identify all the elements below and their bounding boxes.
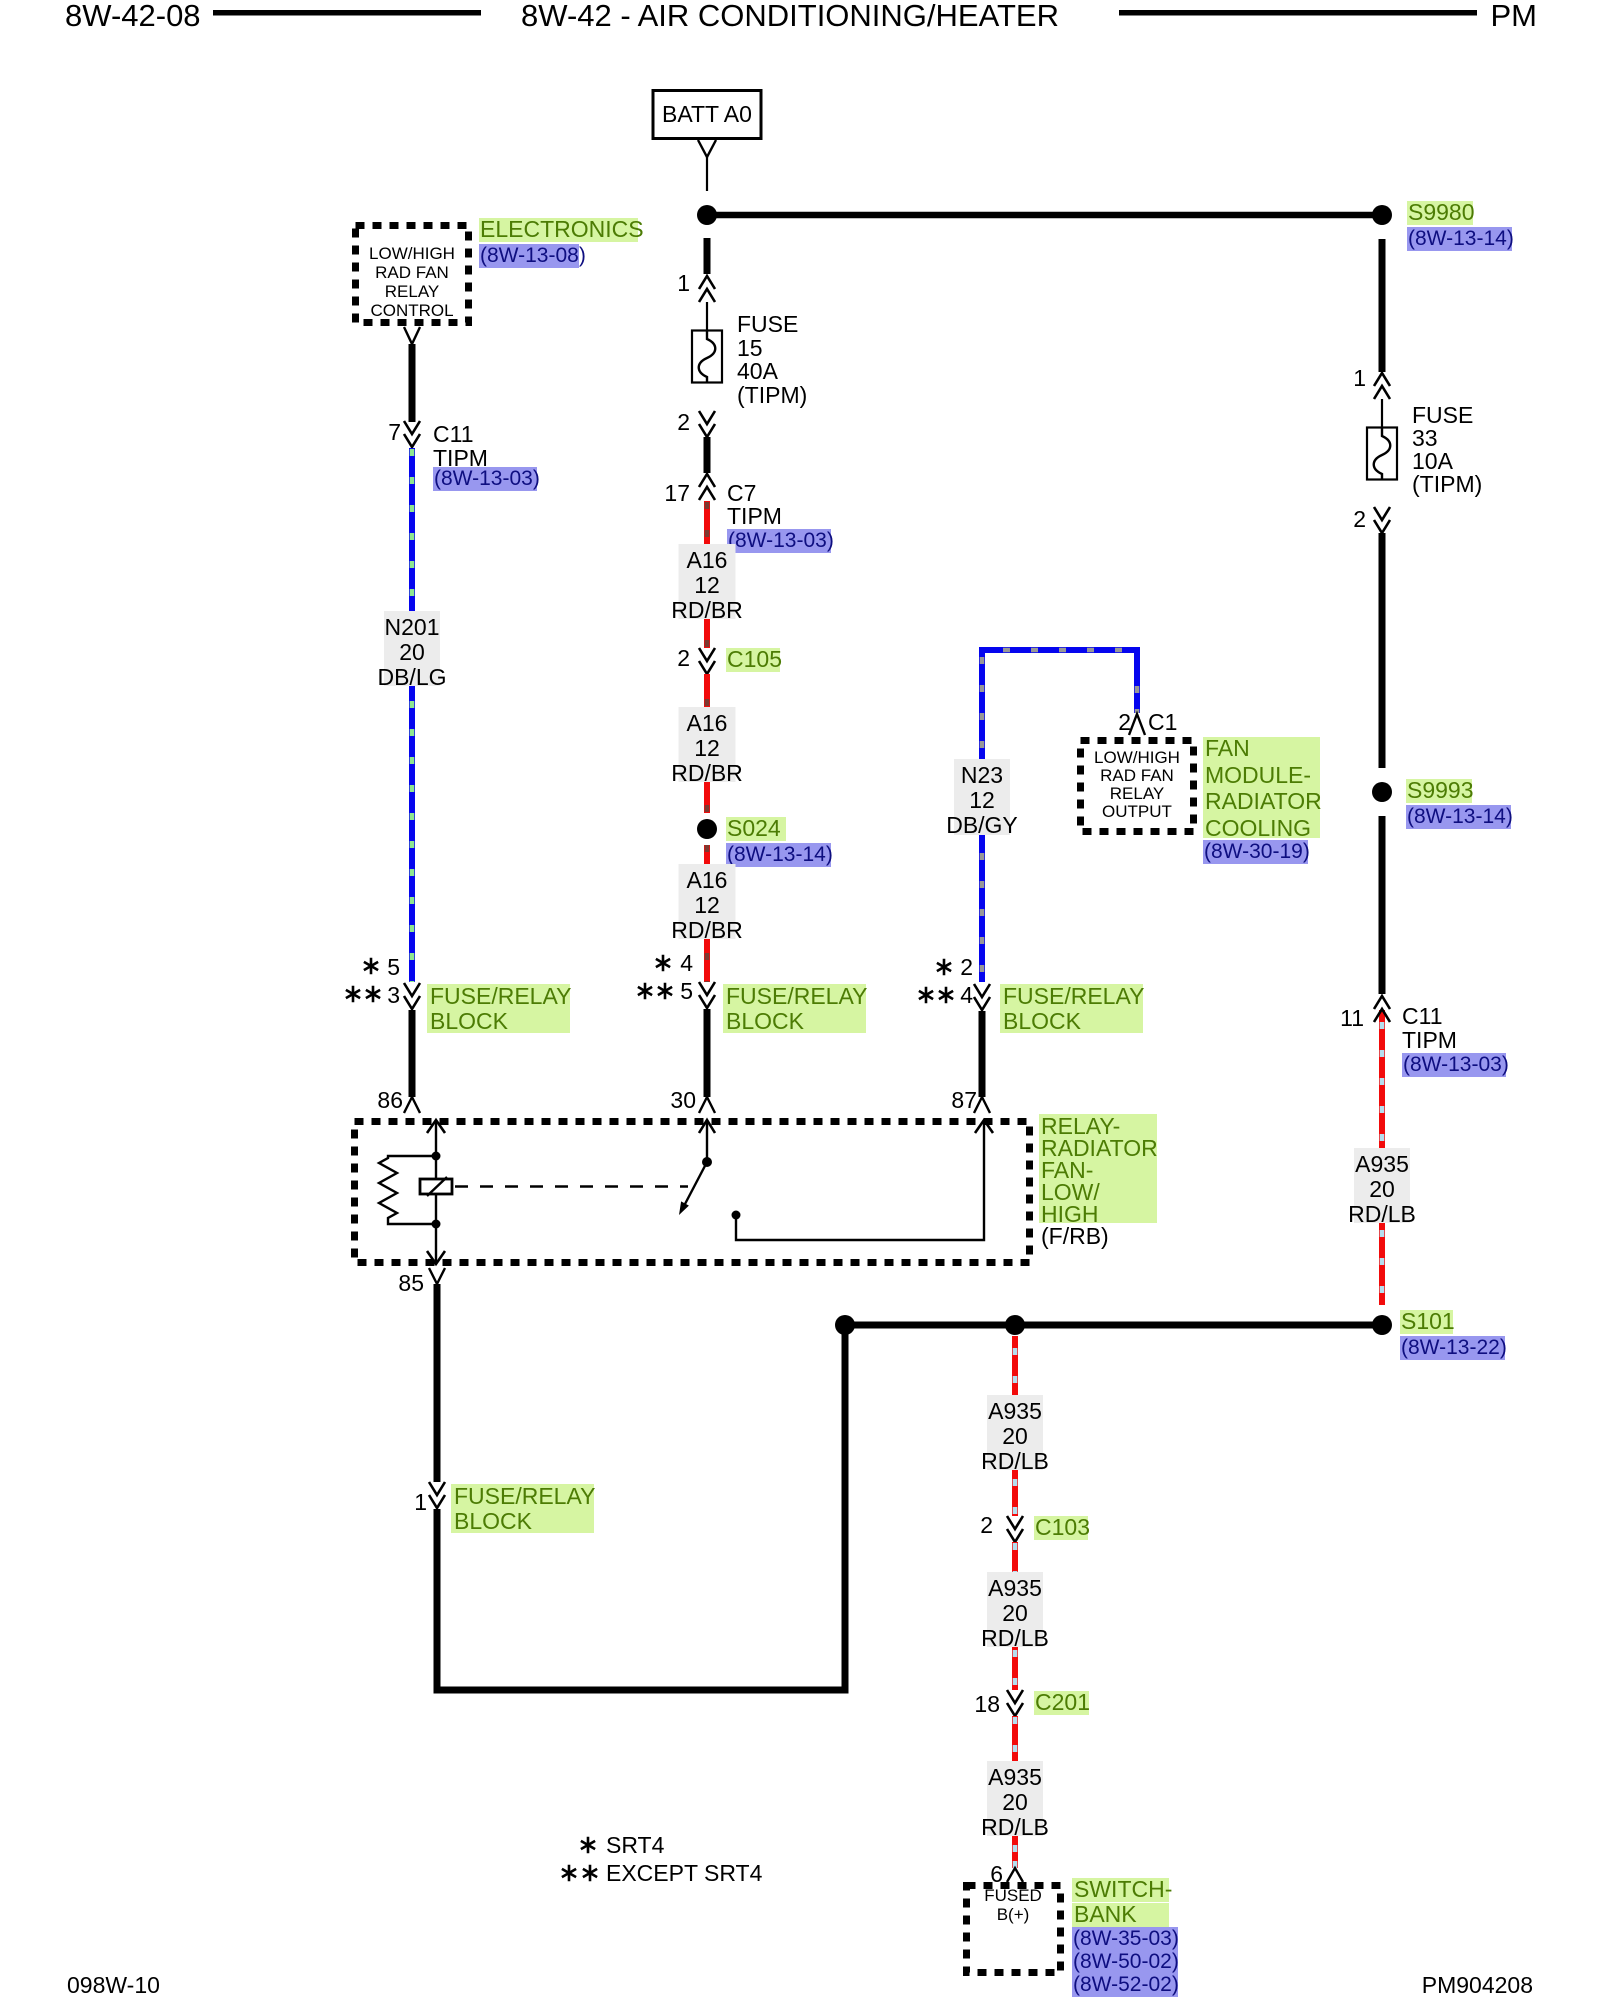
svg-text:2: 2 [1118,709,1131,735]
svg-text:1: 1 [1353,365,1366,391]
svg-text:BLOCK: BLOCK [726,1008,805,1034]
svg-text:EXCEPT SRT4: EXCEPT SRT4 [606,1860,763,1886]
svg-text:2: 2 [980,1512,993,1538]
svg-text:BLOCK: BLOCK [430,1008,509,1034]
svg-text:S9980: S9980 [1408,199,1475,225]
svg-text:FAN: FAN [1205,735,1250,761]
svg-text:C103: C103 [1035,1514,1090,1540]
svg-text:C1: C1 [1148,709,1177,735]
svg-text:FUSE: FUSE [737,311,798,337]
svg-text:SRT4: SRT4 [606,1832,665,1858]
svg-text:S9993: S9993 [1407,777,1474,803]
svg-text:20: 20 [399,639,425,665]
svg-text:(8W-13-03): (8W-13-03) [434,467,540,490]
svg-text:CONTROL: CONTROL [370,301,453,320]
svg-text:(8W-30-19): (8W-30-19) [1204,840,1310,863]
svg-text:RAD FAN: RAD FAN [375,263,449,282]
svg-text:18: 18 [974,1691,1000,1717]
svg-text:1: 1 [677,270,690,296]
svg-text:1: 1 [414,1489,427,1515]
svg-text:C105: C105 [727,646,782,672]
svg-text:RELAY: RELAY [385,282,440,301]
svg-text:20: 20 [1002,1600,1028,1626]
svg-text:2: 2 [960,954,973,980]
svg-text:(TIPM): (TIPM) [737,382,807,408]
svg-text:RAD FAN: RAD FAN [1100,766,1174,785]
svg-text:N201: N201 [385,614,440,640]
svg-text:2: 2 [1353,506,1366,532]
svg-text:LOW/HIGH: LOW/HIGH [1094,748,1180,767]
svg-text:S101: S101 [1401,1308,1455,1334]
svg-text:BANK: BANK [1074,1901,1137,1927]
svg-text:SWITCH-: SWITCH- [1074,1876,1172,1902]
svg-text:C201: C201 [1035,1689,1090,1715]
svg-text:BLOCK: BLOCK [454,1508,533,1534]
svg-text:(8W-13-14): (8W-13-14) [727,843,833,866]
svg-text:MODULE-: MODULE- [1205,762,1311,788]
svg-text:4: 4 [680,950,693,976]
svg-text:(8W-13-03): (8W-13-03) [1403,1053,1509,1076]
svg-text:A935: A935 [988,1764,1042,1790]
svg-text:FUSE/RELAY: FUSE/RELAY [430,983,571,1009]
svg-text:OUTPUT: OUTPUT [1102,802,1172,821]
svg-text:C11: C11 [1402,1003,1443,1029]
svg-text:FUSED: FUSED [984,1886,1042,1905]
svg-text:12: 12 [694,572,720,598]
svg-text:17: 17 [664,480,690,506]
svg-text:20: 20 [1002,1789,1028,1815]
svg-text:DB/GY: DB/GY [946,812,1018,838]
svg-text:PM: PM [1491,0,1538,33]
svg-text:A16: A16 [687,867,728,893]
svg-text:FUSE/RELAY: FUSE/RELAY [454,1483,595,1509]
svg-text:30: 30 [670,1087,696,1113]
svg-text:A16: A16 [687,547,728,573]
svg-text:2: 2 [677,645,690,671]
svg-text:(8W-13-03): (8W-13-03) [728,529,834,552]
svg-text:20: 20 [1002,1423,1028,1449]
svg-text:12: 12 [694,892,720,918]
svg-text:098W-10: 098W-10 [67,1972,160,1998]
svg-text:PM904208: PM904208 [1422,1972,1533,1998]
svg-text:(8W-50-02): (8W-50-02) [1073,1950,1179,1973]
svg-text:(F/RB): (F/RB) [1041,1223,1109,1249]
svg-text:COOLING: COOLING [1205,815,1311,841]
svg-text:5: 5 [387,954,400,980]
svg-text:A16: A16 [687,710,728,736]
svg-text:B(+): B(+) [997,1905,1030,1924]
svg-text:(8W-35-03): (8W-35-03) [1073,1927,1179,1950]
svg-text:LOW/HIGH: LOW/HIGH [369,244,455,263]
svg-text:(8W-52-02): (8W-52-02) [1073,1973,1179,1996]
svg-text:BATT A0: BATT A0 [662,101,752,127]
svg-text:11: 11 [1340,1005,1364,1031]
svg-text:3: 3 [387,982,400,1008]
svg-text:85: 85 [398,1270,424,1296]
svg-text:(8W-13-14): (8W-13-14) [1408,227,1514,250]
svg-text:20: 20 [1369,1176,1395,1202]
svg-text:12: 12 [969,787,995,813]
svg-text:ELECTRONICS: ELECTRONICS [480,216,644,242]
svg-text:(TIPM): (TIPM) [1412,471,1482,497]
svg-text:2: 2 [677,409,690,435]
svg-text:FUSE/RELAY: FUSE/RELAY [1003,983,1144,1009]
svg-text:A935: A935 [1355,1151,1409,1177]
svg-text:FUSE/RELAY: FUSE/RELAY [726,983,867,1009]
svg-text:8W-42 - AIR CONDITIONING/HEATE: 8W-42 - AIR CONDITIONING/HEATER [521,0,1059,33]
svg-text:BLOCK: BLOCK [1003,1008,1082,1034]
svg-text:RELAY: RELAY [1110,784,1165,803]
svg-text:7: 7 [388,419,401,445]
svg-text:TIPM: TIPM [727,503,782,529]
svg-text:4: 4 [960,982,973,1008]
svg-text:TIPM: TIPM [1402,1027,1457,1053]
svg-text:S024: S024 [727,815,781,841]
svg-text:(8W-13-22): (8W-13-22) [1401,1336,1507,1359]
svg-text:12: 12 [694,735,720,761]
svg-text:(8W-13-08): (8W-13-08) [480,244,586,267]
svg-text:87: 87 [951,1087,977,1113]
svg-text:8W-42-08: 8W-42-08 [65,0,201,33]
svg-text:C11: C11 [433,421,474,447]
svg-text:A935: A935 [988,1575,1042,1601]
svg-text:40A: 40A [737,358,779,384]
svg-text:N23: N23 [961,762,1003,788]
svg-text:RADIATOR: RADIATOR [1205,788,1322,814]
svg-text:A935: A935 [988,1398,1042,1424]
svg-text:(8W-13-14): (8W-13-14) [1407,805,1513,828]
svg-text:5: 5 [680,978,693,1004]
svg-text:86: 86 [377,1087,403,1113]
